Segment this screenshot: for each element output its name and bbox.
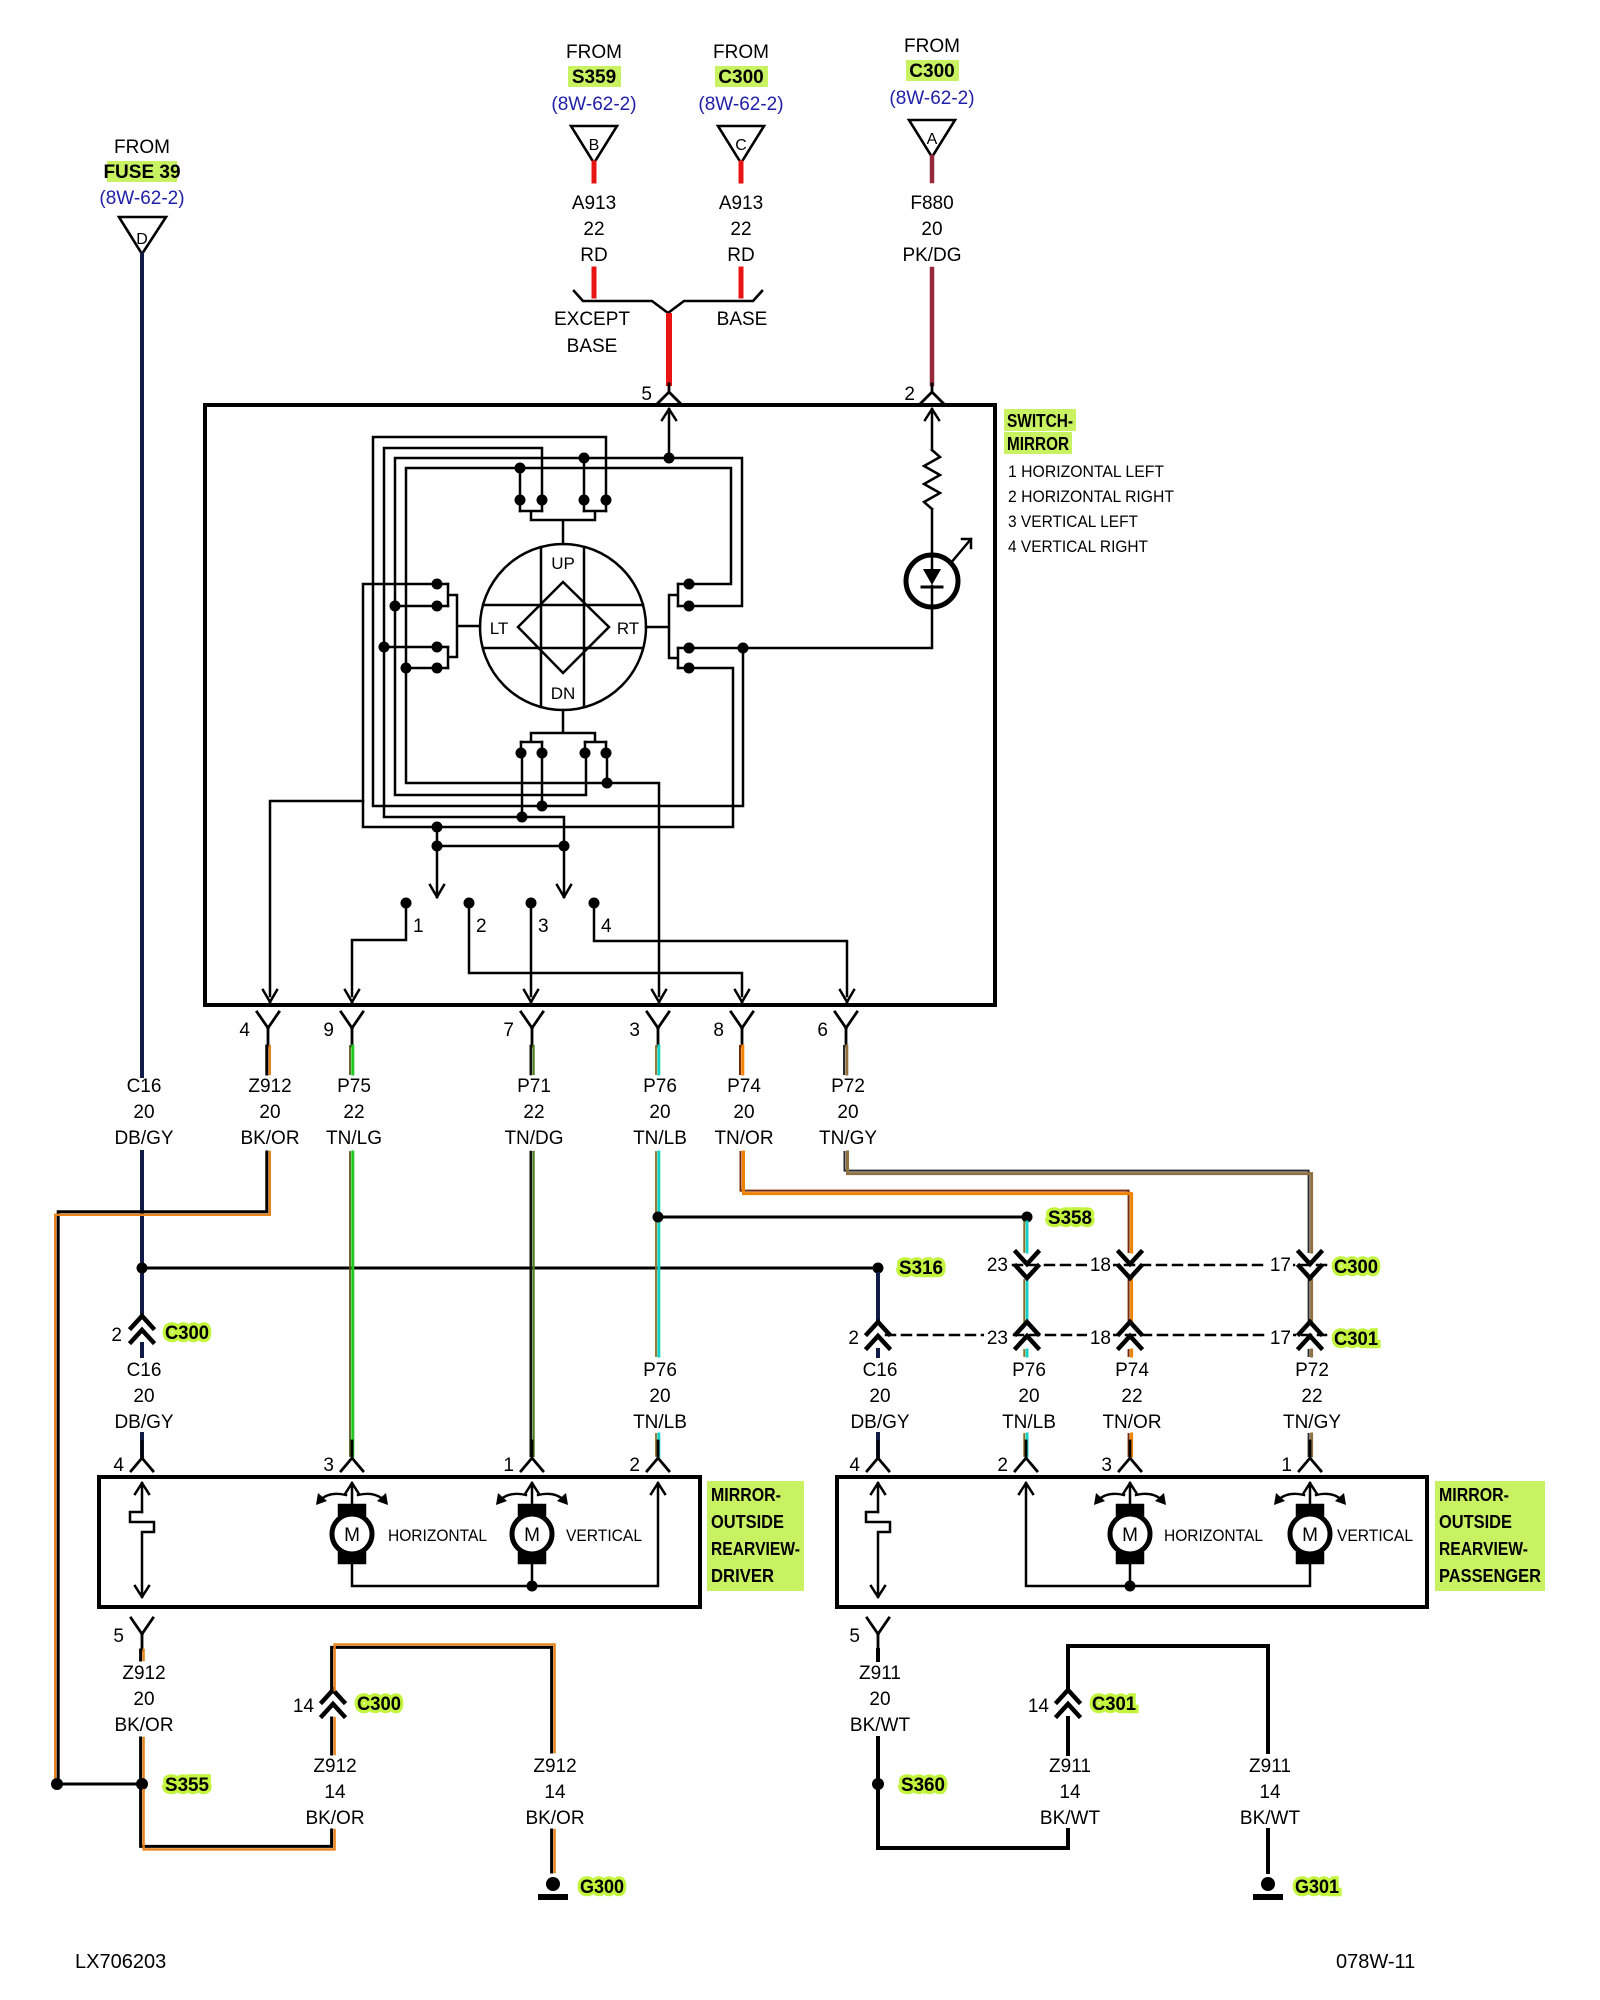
- svg-text:20: 20: [649, 1386, 670, 1407]
- svg-text:4: 4: [601, 916, 612, 937]
- junction pin5 on common: [664, 453, 675, 464]
- svg-text:BK/OR: BK/OR: [305, 1808, 364, 1829]
- svg-text:FROM: FROM: [904, 36, 960, 57]
- svg-text:TN/LB: TN/LB: [633, 1128, 687, 1149]
- connector C300 pin 23: [1016, 1252, 1038, 1278]
- svg-text:TN/DG: TN/DG: [504, 1128, 563, 1149]
- connector triangle C: [718, 126, 764, 163]
- svg-text:8: 8: [713, 1020, 724, 1041]
- svg-text:G301: G301: [1295, 1877, 1339, 1898]
- junction wiper left top: [432, 822, 443, 833]
- svg-text:14: 14: [324, 1782, 346, 1803]
- svg-text:23: 23: [987, 1328, 1008, 1349]
- driver vertical motor rotation arrows: [500, 1494, 564, 1500]
- svg-text:A913: A913: [572, 193, 616, 214]
- svg-text:DRIVER: DRIVER: [711, 1566, 774, 1586]
- svg-text:Z912: Z912: [533, 1756, 576, 1777]
- svg-text:14: 14: [293, 1696, 315, 1717]
- wire UP contact a stub: [519, 468, 522, 494]
- wire P72 TN/GY upper stub: [843, 1046, 845, 1074]
- svg-text:F880: F880: [910, 193, 953, 214]
- svg-text:20: 20: [1018, 1386, 1039, 1407]
- svg-text:1 HORIZONTAL LEFT: 1 HORIZONTAL LEFT: [1008, 462, 1164, 481]
- svg-text:RD: RD: [727, 245, 754, 266]
- junction wiper link left: [432, 841, 443, 852]
- svg-text:DN: DN: [551, 684, 576, 703]
- svg-text:20: 20: [869, 1689, 890, 1710]
- svg-text:B: B: [589, 137, 600, 154]
- wire pin 4 branch: [263, 801, 363, 1002]
- splice S355: [136, 1778, 148, 1790]
- svg-text:BK/WT: BK/WT: [850, 1715, 911, 1736]
- svg-text:S360: S360: [901, 1775, 945, 1796]
- motor M passenger vertical: [1297, 1505, 1323, 1515]
- wire C16 DB/GY from fuse 39 down: [140, 254, 144, 1076]
- svg-text:Z912: Z912: [313, 1756, 356, 1777]
- driver mirror box outline: [99, 1477, 700, 1607]
- svg-text:BASE: BASE: [717, 309, 768, 330]
- svg-text:22: 22: [1301, 1386, 1322, 1407]
- passenger pin 2 entry arrow and return wire: [1019, 1483, 1310, 1586]
- svg-text:P76: P76: [643, 1360, 677, 1381]
- svg-text:2: 2: [997, 1455, 1008, 1476]
- wire DN contact b stub: [541, 758, 544, 806]
- svg-text:S355: S355: [165, 1775, 209, 1796]
- svg-text:FROM: FROM: [114, 137, 170, 158]
- svg-text:1: 1: [503, 1455, 514, 1476]
- svg-text:5: 5: [113, 1626, 124, 1647]
- select stub 2: [464, 898, 475, 909]
- wire nest: UP contact d to outer loop: [373, 437, 743, 806]
- label SWITCH-MIRROR: [1004, 409, 1174, 556]
- svg-text:14: 14: [1028, 1696, 1050, 1717]
- junction DN contact b on loop: [537, 801, 548, 812]
- svg-text:P76: P76: [1012, 1360, 1046, 1381]
- direction diamond: [518, 582, 609, 673]
- wire P71 TN/DG upper stub: [529, 1046, 532, 1074]
- wire Z911 to S360: [876, 1738, 880, 1784]
- svg-text:C16: C16: [127, 1076, 162, 1097]
- white backing for connector pin numbers: [843, 1254, 1293, 1349]
- wiper link wire: [437, 845, 564, 848]
- splice S316 junction on C16: [137, 1263, 148, 1274]
- RT switch contacts: [646, 579, 695, 674]
- svg-text:4: 4: [239, 1020, 250, 1041]
- wire Z911 BK/WT stub: [876, 1650, 880, 1660]
- passenger mirror pin 1 terminal: [1299, 1441, 1321, 1471]
- svg-text:MIRROR-: MIRROR-: [1439, 1485, 1509, 1505]
- svg-text:5: 5: [849, 1626, 860, 1647]
- svg-text:P72: P72: [831, 1076, 865, 1097]
- svg-text:C16: C16: [127, 1360, 162, 1381]
- svg-text:18: 18: [1090, 1255, 1111, 1276]
- wire A913 RD stub under C: [739, 163, 744, 181]
- connector C300 pin 2 (left, on C16): [131, 1316, 153, 1342]
- svg-text:P75: P75: [337, 1076, 371, 1097]
- svg-text:VERTICAL: VERTICAL: [1337, 1526, 1413, 1545]
- grid chords in circle: [483, 547, 643, 707]
- svg-text:20: 20: [259, 1102, 280, 1123]
- connector C301 dashed line: [886, 1334, 1326, 1337]
- svg-text:C300: C300: [1334, 1257, 1378, 1278]
- junction on LED wire: [738, 643, 749, 654]
- junction UP contact a on loop: [515, 463, 526, 474]
- splice S358 junction on P76: [653, 1212, 664, 1223]
- svg-text:PASSENGER: PASSENGER: [1439, 1566, 1541, 1586]
- wire Z912 label stack to C300 chevron: [330, 1718, 333, 1754]
- wire P71 TN/DG to driver mirror: [529, 1152, 532, 1456]
- svg-text:A: A: [927, 131, 938, 148]
- passenger mirror pin 3 terminal: [1119, 1441, 1141, 1471]
- svg-text:REARVIEW-: REARVIEW-: [711, 1539, 800, 1559]
- svg-text:(8W-62-2): (8W-62-2): [551, 94, 636, 115]
- wire Z911 from S360 to C301: [878, 1784, 1068, 1848]
- wire C16 below connector: [140, 1344, 144, 1456]
- svg-text:VERTICAL: VERTICAL: [566, 1526, 642, 1545]
- wire S316 splice line: [148, 1267, 872, 1270]
- svg-text:DB/GY: DB/GY: [850, 1412, 909, 1433]
- svg-text:S316: S316: [899, 1258, 943, 1279]
- label MIRROR-OUTSIDE REARVIEW-PASSENGER: [1435, 1481, 1545, 1591]
- wire LT contact d to nest vertical: [406, 667, 432, 670]
- wire F880 PK/DG stub under A: [930, 157, 935, 181]
- svg-text:M: M: [1302, 1525, 1318, 1546]
- svg-text:17: 17: [1270, 1328, 1291, 1349]
- svg-text:RD: RD: [580, 245, 607, 266]
- wire to ground G301: [1266, 1830, 1270, 1872]
- svg-text:P71: P71: [517, 1076, 551, 1097]
- passenger mirror box outline: [837, 1477, 1427, 1607]
- wire nest: UP contact b loop to wiper: [384, 448, 571, 897]
- svg-text:C300: C300: [909, 61, 954, 82]
- wire P76 TN/LB upper stub: [655, 1046, 657, 1074]
- svg-text:DB/GY: DB/GY: [114, 1128, 173, 1149]
- connector C301 pin 23: [1016, 1322, 1038, 1348]
- wire Z911 14 to G301: [1068, 1646, 1268, 1752]
- wire F880 PK/DG to switch pin 2: [930, 269, 935, 384]
- connector C301 pin 17: [1299, 1322, 1321, 1348]
- svg-text:C16: C16: [863, 1360, 898, 1381]
- junction UP contact c on common: [579, 453, 590, 464]
- svg-text:P72: P72: [1295, 1360, 1329, 1381]
- passenger horizontal motor rotation arrows: [1098, 1494, 1162, 1500]
- svg-text:BK/WT: BK/WT: [1240, 1808, 1301, 1829]
- junction DN contact d on loop: [602, 778, 613, 789]
- passenger vertical motor rotation arrows: [1278, 1494, 1342, 1500]
- svg-text:20: 20: [869, 1386, 890, 1407]
- svg-text:22: 22: [1121, 1386, 1142, 1407]
- passenger horizontal motor entry arrow: [1123, 1483, 1137, 1508]
- connector C300 pin 14: [322, 1690, 344, 1716]
- svg-text:7: 7: [503, 1020, 514, 1041]
- wire C16 DB/GY from S316 to passenger mirror: [876, 1274, 880, 1456]
- wire RD from brace to switch pin 5: [666, 316, 672, 383]
- wire S358 branch TN/LB to passenger mirror: [1023, 1222, 1025, 1456]
- junction driver vertical motor on return: [527, 1581, 538, 1592]
- wire LT contact b to common vertical: [395, 605, 432, 608]
- passenger mirror pin 2 terminal: [1015, 1441, 1037, 1471]
- label MIRROR-OUTSIDE REARVIEW-DRIVER: [707, 1481, 804, 1591]
- driver mirror pin 2 terminal: [647, 1441, 669, 1471]
- wire P75 TN/LG to driver mirror: [349, 1152, 351, 1456]
- wire Z912 BK/OR upper stubs: [265, 1046, 268, 1074]
- svg-text:RT: RT: [617, 619, 639, 638]
- wire S358 splice line: [664, 1216, 1021, 1219]
- svg-text:PK/DG: PK/DG: [902, 245, 961, 266]
- svg-text:17: 17: [1270, 1255, 1291, 1276]
- driver vertical motor entry arrow: [525, 1483, 539, 1508]
- connector triangle D: [119, 217, 166, 254]
- svg-text:C300: C300: [718, 67, 763, 88]
- svg-text:22: 22: [730, 219, 751, 240]
- splice S360: [872, 1778, 884, 1790]
- svg-text:FROM: FROM: [566, 42, 622, 63]
- passenger mirror pin 5 terminal: [867, 1618, 889, 1650]
- svg-text:078W-11: 078W-11: [1336, 1951, 1415, 1973]
- svg-text:Z911: Z911: [859, 1663, 901, 1684]
- svg-text:BK/OR: BK/OR: [525, 1808, 584, 1829]
- svg-text:3: 3: [538, 916, 549, 937]
- select stub 3: [526, 898, 537, 909]
- svg-text:14: 14: [1059, 1782, 1081, 1803]
- splice S316: [873, 1263, 884, 1274]
- connector C300 dashed line: [1013, 1264, 1326, 1267]
- svg-text:4: 4: [849, 1455, 860, 1476]
- svg-text:3: 3: [629, 1020, 640, 1041]
- wire A913 RD stub to brace: [739, 269, 744, 296]
- svg-text:TN/OR: TN/OR: [714, 1128, 773, 1149]
- wire P74 TN/OR upper stub: [739, 1046, 741, 1074]
- svg-text:2: 2: [848, 1328, 859, 1349]
- svg-text:P76: P76: [643, 1076, 677, 1097]
- svg-text:(8W-62-2): (8W-62-2): [99, 188, 184, 209]
- select stub 4: [589, 898, 600, 909]
- svg-text:22: 22: [343, 1102, 364, 1123]
- driver heater element: [135, 1483, 149, 1512]
- LED indicator: [906, 555, 958, 607]
- junction wiper link right: [559, 841, 570, 852]
- passenger vertical motor entry arrow: [1303, 1483, 1317, 1508]
- joystick circle: [480, 544, 646, 710]
- wire P72 TN/GY jog to C300: [845, 1152, 1309, 1456]
- svg-text:M: M: [344, 1525, 360, 1546]
- wire Z911 label stack to C301 chevron: [1066, 1718, 1070, 1754]
- svg-text:BK/OR: BK/OR: [114, 1715, 173, 1736]
- pin 5 terminal at switch: [658, 384, 680, 403]
- svg-text:(8W-62-2): (8W-62-2): [698, 94, 783, 115]
- connector C301 pin 14: [1057, 1690, 1079, 1716]
- wire LED to RT switch contacts: [694, 607, 932, 648]
- driver mirror pin 4 terminal: [131, 1441, 153, 1471]
- svg-text:SWITCH-: SWITCH-: [1007, 411, 1073, 431]
- svg-text:6: 6: [817, 1020, 828, 1041]
- wire A913 RD stub under B: [592, 163, 597, 181]
- svg-text:FROM: FROM: [713, 42, 769, 63]
- DN switch contacts: [516, 710, 612, 759]
- wire C16 DB/GY to S316 junction: [140, 1152, 144, 1316]
- driver mirror pin 5 terminal: [131, 1618, 153, 1650]
- svg-text:2 HORIZONTAL RIGHT: 2 HORIZONTAL RIGHT: [1008, 487, 1174, 506]
- svg-text:REARVIEW-: REARVIEW-: [1439, 1539, 1528, 1559]
- svg-text:OUTSIDE: OUTSIDE: [1439, 1512, 1512, 1532]
- splice S355 link wire: [57, 1783, 142, 1786]
- wire nest: UP contact a / RT contact a loop: [406, 468, 731, 996]
- wire P74 TN/OR jog to C300: [741, 1152, 1129, 1456]
- driver common return wire: [352, 1483, 665, 1586]
- svg-text:3: 3: [1101, 1455, 1112, 1476]
- svg-text:2: 2: [904, 384, 915, 405]
- junction DN contact a on wiper branch: [517, 812, 528, 823]
- svg-text:DB/GY: DB/GY: [114, 1412, 173, 1433]
- svg-text:HORIZONTAL: HORIZONTAL: [388, 1526, 487, 1545]
- wire to ground G300: [550, 1830, 553, 1872]
- wire LT contact c to nest vertical: [384, 646, 432, 649]
- svg-text:20: 20: [837, 1102, 858, 1123]
- svg-text:18: 18: [1090, 1328, 1111, 1349]
- driver mirror pin 3 terminal: [341, 1441, 363, 1471]
- svg-text:C300: C300: [165, 1323, 209, 1344]
- pin 2 terminal at switch: [921, 384, 943, 403]
- svg-text:EXCEPT: EXCEPT: [554, 309, 630, 330]
- svg-text:D: D: [136, 231, 148, 248]
- svg-text:20: 20: [733, 1102, 754, 1123]
- pin 3 terminal: [647, 1012, 669, 1046]
- svg-text:3 VERTICAL LEFT: 3 VERTICAL LEFT: [1008, 512, 1138, 531]
- driver mirror pin 1 terminal: [521, 1441, 543, 1471]
- svg-text:20: 20: [133, 1386, 154, 1407]
- wire nest: common feed loop (pin5 / UP c / RT b / DN c): [395, 458, 742, 795]
- svg-text:20: 20: [649, 1102, 670, 1123]
- resistor (illumination): [924, 450, 940, 509]
- select stub 1: [401, 898, 412, 909]
- svg-text:BASE: BASE: [567, 336, 618, 357]
- pin 3 exit arrow: [652, 990, 666, 1002]
- junction passenger horizontal motor on return: [1125, 1581, 1136, 1592]
- svg-text:22: 22: [583, 219, 604, 240]
- driver horizontal motor entry arrow: [345, 1483, 359, 1508]
- svg-text:TN/LG: TN/LG: [326, 1128, 382, 1149]
- svg-text:P74: P74: [1115, 1360, 1149, 1381]
- svg-text:TN/LB: TN/LB: [633, 1412, 687, 1433]
- pin 5 entry arrow: [662, 409, 676, 457]
- svg-text:FUSE 39: FUSE 39: [103, 162, 180, 183]
- pin 2 entry arrow: [925, 409, 939, 450]
- motor M passenger horizontal: [1117, 1505, 1143, 1515]
- svg-text:9: 9: [323, 1020, 334, 1041]
- svg-text:23: 23: [987, 1255, 1008, 1276]
- svg-text:2: 2: [111, 1325, 122, 1346]
- wiper arrow left: [430, 827, 444, 897]
- svg-text:2: 2: [629, 1455, 640, 1476]
- svg-text:LT: LT: [490, 619, 509, 638]
- connector C300 pin 18: [1119, 1252, 1141, 1278]
- wire UP contact c stub: [583, 458, 586, 494]
- svg-text:22: 22: [523, 1102, 544, 1123]
- svg-text:A913: A913: [719, 193, 763, 214]
- wire Z912 BK/OR long run to S355: [58, 1152, 267, 1784]
- svg-text:HORIZONTAL: HORIZONTAL: [1164, 1526, 1263, 1545]
- svg-text:TN/LB: TN/LB: [1002, 1412, 1056, 1433]
- svg-text:C301: C301: [1092, 1694, 1136, 1715]
- svg-text:TN/GY: TN/GY: [1283, 1412, 1341, 1433]
- svg-text:MIRROR: MIRROR: [1007, 434, 1069, 454]
- pin 8 terminal: [731, 1012, 753, 1046]
- svg-text:20: 20: [133, 1689, 154, 1710]
- wire DN contact d stub: [606, 758, 609, 783]
- svg-text:M: M: [524, 1525, 540, 1546]
- svg-text:2: 2: [476, 916, 487, 937]
- pin 6 terminal: [835, 1012, 857, 1046]
- driver horizontal motor rotation arrows: [320, 1494, 384, 1500]
- svg-text:3: 3: [323, 1455, 334, 1476]
- wire Z912 14 to G300: [332, 1647, 552, 1752]
- svg-text:UP: UP: [551, 554, 575, 573]
- connector triangle B: [571, 126, 617, 163]
- UP switch contacts: [515, 495, 612, 545]
- svg-text:TN/OR: TN/OR: [1102, 1412, 1161, 1433]
- svg-text:S358: S358: [1048, 1208, 1092, 1229]
- svg-text:C300: C300: [357, 1694, 401, 1715]
- svg-text:LX706203: LX706203: [75, 1951, 166, 1973]
- wire nest: LT contact a / RT contact d / pin4 loop: [363, 584, 733, 827]
- ground G300: [546, 1877, 560, 1891]
- svg-text:OUTSIDE: OUTSIDE: [711, 1512, 784, 1532]
- svg-text:Z912: Z912: [248, 1076, 291, 1097]
- pin 4 terminal: [257, 1012, 279, 1046]
- passenger heater element: [871, 1483, 885, 1512]
- wire P75 TN/LG upper stub: [349, 1046, 351, 1074]
- wire P76 TN/LB to S358 and driver mirror: [655, 1152, 657, 1456]
- svg-text:14: 14: [544, 1782, 566, 1803]
- wire Z912 BK/OR stub: [139, 1650, 142, 1660]
- svg-text:C301: C301: [1334, 1329, 1378, 1350]
- switch mirror box outline: [205, 405, 995, 1005]
- svg-text:20: 20: [133, 1102, 154, 1123]
- svg-text:BK/OR: BK/OR: [240, 1128, 299, 1149]
- motor M driver horizontal: [339, 1505, 365, 1515]
- svg-text:20: 20: [921, 219, 942, 240]
- svg-text:4 VERTICAL RIGHT: 4 VERTICAL RIGHT: [1008, 537, 1148, 556]
- LT switch contacts: [379, 579, 481, 674]
- pin 9 terminal: [341, 1012, 363, 1046]
- svg-text:1: 1: [1281, 1455, 1292, 1476]
- svg-text:G300: G300: [580, 1877, 624, 1898]
- wire Z912 from S355 to C300: [141, 1784, 332, 1846]
- svg-text:Z911: Z911: [1049, 1756, 1091, 1777]
- wire resistor to LED: [931, 509, 934, 555]
- connector C301 pin 2: [867, 1322, 889, 1348]
- ground G301: [1261, 1877, 1275, 1891]
- wire Z912 to S355: [139, 1738, 142, 1784]
- connector C300 pin 17: [1299, 1252, 1321, 1278]
- svg-text:14: 14: [1259, 1782, 1281, 1803]
- svg-text:1: 1: [413, 916, 424, 937]
- splice S358: [1022, 1212, 1033, 1223]
- svg-text:BK/WT: BK/WT: [1040, 1808, 1101, 1829]
- svg-text:(8W-62-2): (8W-62-2): [889, 88, 974, 109]
- svg-text:TN/GY: TN/GY: [819, 1128, 877, 1149]
- passenger mirror pin 4 terminal: [867, 1441, 889, 1471]
- brace joining EXCEPT BASE / BASE feeds: [574, 291, 762, 313]
- motor M driver vertical: [519, 1505, 545, 1515]
- pin 7 terminal: [521, 1012, 543, 1046]
- svg-text:P74: P74: [727, 1076, 761, 1097]
- wire A913 RD stub to brace: [592, 269, 597, 296]
- svg-text:Z911: Z911: [1249, 1756, 1291, 1777]
- svg-text:C: C: [735, 137, 747, 154]
- svg-text:MIRROR-: MIRROR-: [711, 1485, 781, 1505]
- wire DN contact a stub: [521, 758, 524, 817]
